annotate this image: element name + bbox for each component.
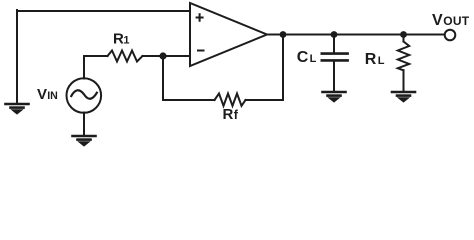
wire: left vertical riser to ground xyxy=(16,10,18,103)
op-amp - input symbol xyxy=(198,50,204,52)
op-amp U1 xyxy=(190,3,267,66)
resistor Rf xyxy=(215,94,246,106)
svg-text:C: C xyxy=(297,49,309,66)
capacitor CL xyxy=(322,35,348,92)
svg-text:L: L xyxy=(310,53,317,65)
svg-text:1: 1 xyxy=(123,35,129,47)
wire: feedback from Rf up to output node xyxy=(246,35,284,101)
label RL xyxy=(365,51,385,68)
svg-text:OUT: OUT xyxy=(443,14,469,28)
label CL xyxy=(297,49,317,66)
label VIN xyxy=(37,86,58,103)
svg-text:R: R xyxy=(365,51,377,68)
ground (below RL) xyxy=(392,92,415,102)
ground (below VIN) xyxy=(73,136,96,146)
label Rf xyxy=(223,106,239,123)
resistor R1 xyxy=(108,51,143,62)
terminal VOUT (open circle) xyxy=(445,30,456,41)
node: inverting input junction dot xyxy=(159,52,166,59)
wire: op-amp output to VOUT terminal xyxy=(267,34,445,36)
svg-text:R: R xyxy=(113,31,124,48)
wire: feedback from inverting node down xyxy=(163,56,215,100)
node: CL junction dot xyxy=(331,31,338,38)
label R1 xyxy=(113,31,130,48)
node: output junction dot xyxy=(280,31,287,38)
svg-text:IN: IN xyxy=(47,90,58,102)
svg-text:V: V xyxy=(432,12,443,29)
wire: VIN bottom lead to ground xyxy=(83,113,85,136)
source VIN (AC voltage source) xyxy=(67,78,102,113)
wire: R1 to inverting input node xyxy=(143,55,191,57)
wire: VIN top lead up and right to R1 xyxy=(84,56,108,79)
node: RL junction dot xyxy=(400,31,407,38)
resistor RL xyxy=(398,35,409,92)
ground (below CL) xyxy=(323,92,346,102)
svg-text:V: V xyxy=(37,86,47,103)
svg-text:R: R xyxy=(223,106,234,123)
wire: top wire from left ground riser to op-amp noninverting input xyxy=(17,10,190,12)
svg-text:f: f xyxy=(234,108,239,122)
op-amp + input symbol xyxy=(197,14,203,21)
ground (left, noninverting reference) xyxy=(6,104,29,114)
label VOUT xyxy=(432,12,470,29)
svg-text:L: L xyxy=(378,55,385,67)
